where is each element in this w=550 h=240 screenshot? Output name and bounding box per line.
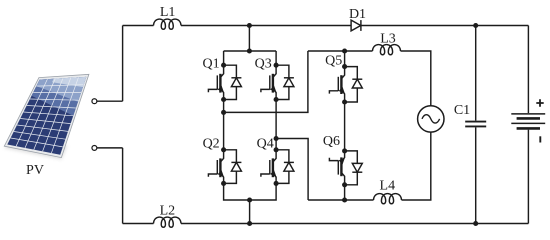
wire top rail middle segment <box>181 25 528 27</box>
node Q3 collector <box>274 63 279 68</box>
svg-text:Q4: Q4 <box>257 137 274 152</box>
node Q1 emitter <box>221 97 226 102</box>
wire right vertical lower (battery - to bottom rail) <box>527 130 529 224</box>
node Q2 emitter <box>221 181 226 186</box>
wire Q3 collector drop <box>275 51 277 65</box>
wire bottom rail left segment <box>123 223 154 225</box>
freewheeling diode of Q2 <box>224 150 242 184</box>
freewheeling diode of Q1 <box>224 65 242 99</box>
junction bridge top center <box>247 48 252 53</box>
wire C1 upper lead <box>475 26 477 121</box>
diode D1 <box>351 20 361 31</box>
battery - sign <box>539 136 541 142</box>
wire Q5 emitter to Q6 <box>344 102 346 151</box>
wire bridge bottom horizontal <box>224 183 277 200</box>
junction bridge bottom center <box>247 197 252 202</box>
terminal node + (PV positive) <box>92 99 123 104</box>
node Q6 bottom <box>342 182 347 187</box>
freewheeling diode of Q6 <box>345 151 363 185</box>
node Q4 emitter <box>274 181 279 186</box>
battery <box>511 114 545 128</box>
wire right leg (Q3 emitter to Q4 collector) <box>275 100 277 150</box>
wire node B branch down to L4 line <box>276 139 308 201</box>
transistor Q1 <box>208 65 224 99</box>
node Q3 emitter <box>274 97 279 102</box>
freewheeling diode of Q3 <box>276 65 294 99</box>
transistor Q6 <box>329 151 345 185</box>
transistor Q4 <box>261 150 277 184</box>
svg-text:Q6: Q6 <box>323 134 340 149</box>
node Q4 collector <box>274 147 279 152</box>
svg-text:C1: C1 <box>454 103 470 118</box>
wire bypass top rail (to L3) <box>308 50 373 52</box>
wire bypass bottom rail (to L4) <box>308 199 373 201</box>
transistor Q2 <box>208 150 224 184</box>
svg-text:Q1: Q1 <box>202 56 219 71</box>
junction bypass bottom / L4 line <box>342 197 347 202</box>
wire bridge bottom return <box>249 200 251 224</box>
wire bridge top feed <box>248 26 250 52</box>
node Q5 collector <box>342 64 347 69</box>
terminal node - (PV negative) <box>92 145 123 150</box>
svg-text:L1: L1 <box>160 5 176 20</box>
node Q5 emitter <box>342 99 347 104</box>
wire top rail left segment <box>123 25 154 27</box>
wire L4 to AC source <box>402 132 431 200</box>
junction top rail / bridge feed <box>247 23 252 28</box>
wire L3 to AC source <box>401 51 431 106</box>
node Q2 collector <box>221 147 226 152</box>
freewheeling diode of Q5 <box>345 67 363 102</box>
wire node A branch to bypass leg <box>224 51 308 112</box>
junction bottom rail / C1 branch <box>473 221 478 226</box>
svg-text:L4: L4 <box>380 179 396 194</box>
transistor Q3 <box>261 65 277 99</box>
svg-text:D1: D1 <box>349 7 366 22</box>
inductor L3 <box>373 45 401 55</box>
svg-text:PV: PV <box>26 163 44 178</box>
inductor L4 <box>374 194 402 204</box>
svg-text:Q2: Q2 <box>203 137 220 152</box>
wire left vertical top (terminal to top rail) <box>122 26 124 102</box>
capacitor C1 <box>465 122 486 127</box>
freewheeling diode of Q4 <box>276 150 294 184</box>
svg-text:Q3: Q3 <box>255 56 272 71</box>
svg-text:L2: L2 <box>160 204 176 219</box>
wire right vertical upper (top rail to battery +) <box>527 26 529 114</box>
node Q1 collector <box>221 63 226 68</box>
wire Q1 collector drop <box>223 51 225 65</box>
inductor L1 <box>154 19 182 29</box>
wire bridge top horizontal <box>224 50 277 52</box>
AC source (grid) <box>418 106 444 132</box>
wire bottom rail right segment <box>181 223 528 225</box>
PV solar panel <box>4 74 89 159</box>
svg-text:Q5: Q5 <box>325 53 342 68</box>
node A (left leg midpoint) <box>221 110 226 115</box>
wire left leg (Q1 emitter to Q2 collector) <box>223 100 225 150</box>
wire left vertical bottom (terminal to bottom rail) <box>122 148 124 224</box>
svg-text:L3: L3 <box>380 32 396 47</box>
junction top rail / C1 branch <box>473 23 478 28</box>
battery + sign <box>536 99 543 106</box>
junction bottom rail / bridge return <box>247 221 252 226</box>
node Q6 top <box>342 148 347 153</box>
wire Q5 collector drop <box>344 51 346 67</box>
junction bypass top / Q5 <box>342 48 347 53</box>
wire C1 lower lead <box>475 127 477 223</box>
transistor Q5 <box>329 67 345 102</box>
wire Q6 to L4 line <box>344 185 346 200</box>
inductor L2 <box>154 217 182 227</box>
node B (right leg midpoint) <box>274 136 279 141</box>
